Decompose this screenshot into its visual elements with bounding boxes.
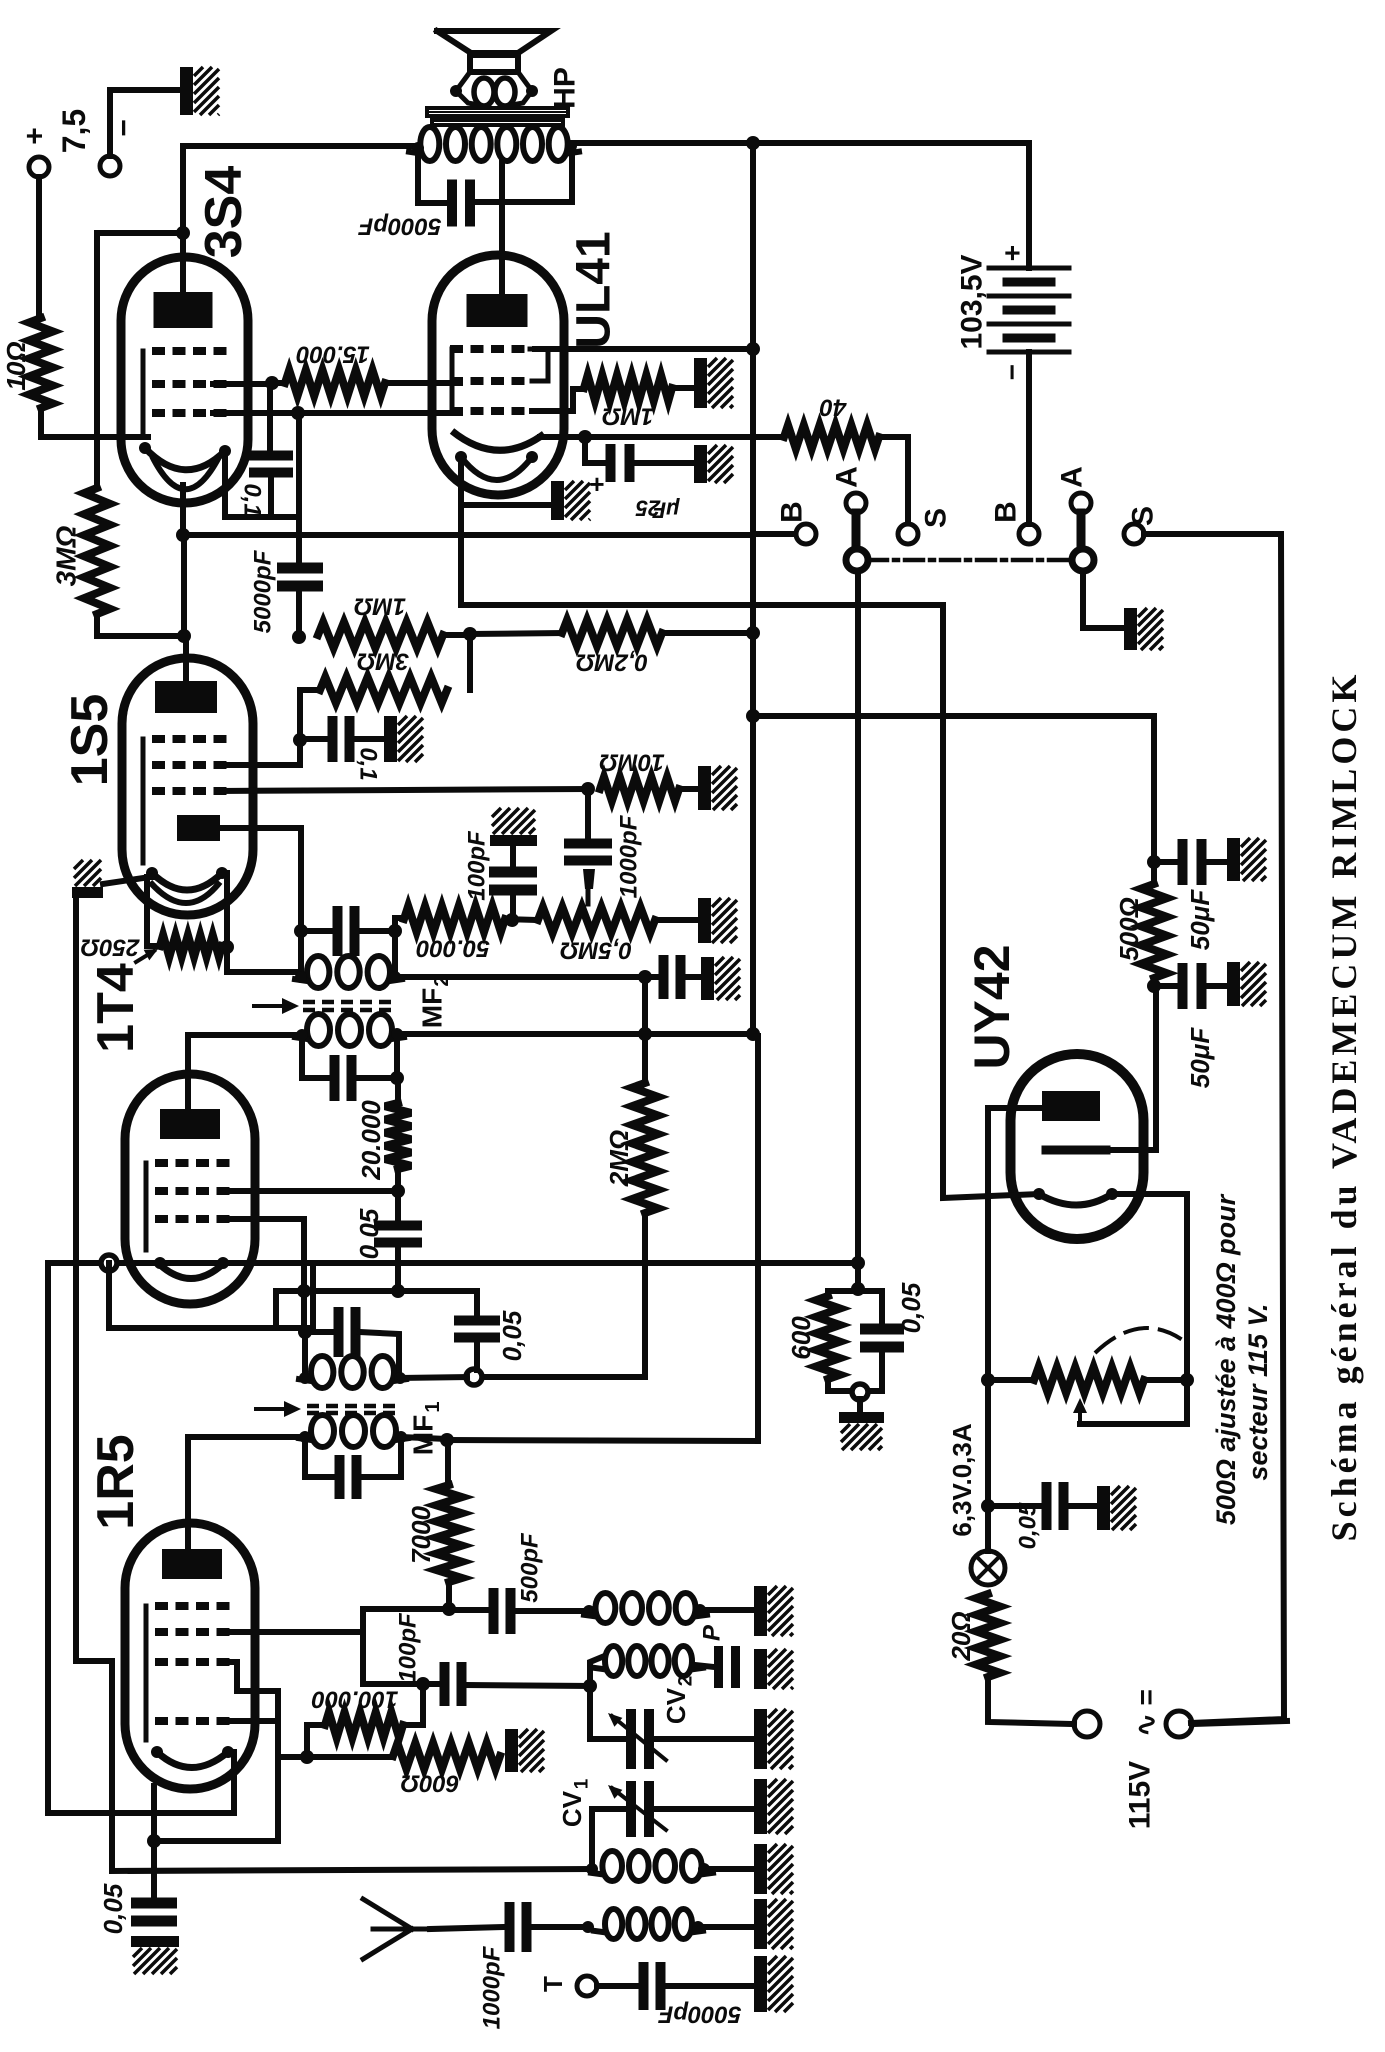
wire 3S4 g1 bus to UL41 grid	[213, 410, 460, 416]
wire switch pole 1 down (A- bus)	[855, 571, 861, 1289]
wire 2M bottom to 0,05/volume bus	[482, 1213, 645, 1377]
potentiometer arrow	[136, 951, 154, 962]
svg-text:6,3V.0,3A: 6,3V.0,3A	[947, 1423, 977, 1536]
wire decoupling top rail	[828, 1288, 882, 1294]
wire UY42 filament right to dropper	[1112, 1194, 1187, 1424]
transformer core laminations	[427, 108, 568, 116]
node MF1/7000 junction	[440, 1433, 454, 1447]
wire transformer tap to UL41 anode	[499, 160, 505, 294]
node MF2 primary right / 20.000	[394, 1034, 400, 1078]
node 250 ohm right	[220, 940, 234, 954]
tube UL41 screen bracket right	[530, 349, 548, 381]
capacitor MF2 top tank	[333, 906, 343, 956]
capacitor 500pF	[449, 1607, 489, 1613]
svg-text:10Ω: 10Ω	[1, 341, 31, 390]
wire down to 25uF	[585, 437, 605, 463]
wire 1M/0,2M node down to 3M	[467, 634, 473, 690]
svg-text:500Ω: 500Ω	[1114, 897, 1144, 961]
wire CV1 left to antenna tank	[592, 1809, 627, 1869]
node 6,3V lamp junction	[981, 1499, 995, 1513]
resistor 100.000 (osc grid leak)	[307, 1725, 325, 1757]
svg-text:40: 40	[819, 394, 847, 421]
node osc tank left	[583, 1679, 597, 1693]
wire 0,2M to B+ bus	[662, 630, 753, 636]
svg-text:0,1: 0,1	[239, 483, 266, 516]
svg-text:20Ω: 20Ω	[946, 1611, 976, 1661]
wire B+ return line (y=1440)	[447, 1036, 758, 1441]
node smoothing junction	[1147, 979, 1161, 993]
wire chassis bus to antenna coil bus	[76, 1661, 592, 1871]
switch pole 1	[852, 513, 861, 547]
wire 10 ohm to 3S4 filament	[41, 408, 148, 437]
wire 1S5 anode to AF node	[183, 636, 189, 681]
resistor 2 Mohm (detector load)	[632, 1083, 658, 1213]
wire S2 to mains bus	[1144, 534, 1284, 1723]
node 7000 bottom	[442, 1602, 456, 1616]
svg-text:HP: HP	[549, 67, 582, 109]
coil oscillator feedback winding	[596, 1593, 616, 1623]
node crossing circle	[101, 1255, 117, 1271]
svg-text:MF: MF	[417, 988, 448, 1028]
node anode/grid junction dot	[176, 226, 190, 240]
ground (1S5 filament left)	[72, 887, 103, 898]
svg-text:1MΩ: 1MΩ	[602, 403, 654, 430]
wire y=1841 to osc grid bus	[154, 1838, 278, 1844]
ground (switch pole 2)	[1124, 608, 1137, 650]
node screen junction	[265, 376, 279, 390]
dropper wiper arrow	[1078, 1410, 1082, 1424]
node 100pF/osc junction	[416, 1677, 430, 1691]
node antenna tank left	[586, 1863, 598, 1875]
wire pole 2 to ground	[1083, 571, 1122, 628]
node decoupling top	[851, 1282, 865, 1296]
wire 0,5M to ground	[655, 917, 700, 923]
svg-text:20.000: 20.000	[356, 1100, 386, 1181]
ground (earth 5000pF)	[754, 1956, 767, 2012]
wire 3S4 screen to 15.000 resistor	[213, 381, 272, 387]
svg-text:B: B	[990, 501, 1023, 523]
resistor 15.000 (screen feed)	[285, 370, 385, 396]
wire UL41 cathode right to 25uF and 40 ohm	[540, 434, 784, 440]
stub 1000pF lower electrode	[583, 869, 595, 889]
wire grid-cap bus to 3S4	[97, 230, 183, 236]
wire B terminal to B+ bus	[753, 531, 795, 537]
svg-text:100pF: 100pF	[395, 1612, 422, 1683]
MF1 core with tuning arrow	[307, 1406, 399, 1413]
svg-text:5000pF: 5000pF	[657, 2001, 741, 2028]
wire 1S5 g1/AVC bus	[218, 789, 588, 791]
ground (UL41 cathode)	[551, 481, 564, 520]
terminal B (switch 2)	[1019, 524, 1039, 544]
wire 20 ohm to mains terminal	[988, 1677, 1074, 1724]
wire UL41 g1 to 1M resistor	[532, 389, 584, 411]
capacitor padder P	[695, 1665, 714, 1667]
wire y=1757	[278, 1754, 393, 1760]
wire CV1 right to ground	[653, 1806, 754, 1812]
node B+ / MF2	[746, 1027, 760, 1041]
coil antenna primary	[605, 1909, 622, 1939]
svg-text:S: S	[1127, 506, 1160, 526]
svg-text:15.000: 15.000	[296, 341, 370, 368]
wire 3S4 filament to 0,1 cap	[225, 452, 271, 517]
svg-text:0,2MΩ: 0,2MΩ	[576, 649, 648, 676]
svg-text:UL41: UL41	[568, 231, 621, 348]
svg-text:5000pF: 5000pF	[357, 213, 441, 240]
svg-text:50.000: 50.000	[416, 935, 490, 962]
node screen/3M/0,1 junction	[293, 733, 307, 747]
capacitor 1000pF (antenna)	[505, 1902, 515, 1952]
tube 1R5 grid left bracket	[144, 1606, 149, 1740]
ground (bias network)	[839, 1412, 884, 1423]
svg-text:0,05: 0,05	[1015, 1502, 1042, 1549]
resistor 600 (bias)	[825, 1291, 831, 1296]
svg-text:A: A	[1056, 466, 1089, 488]
ground (padder)	[754, 1649, 767, 1689]
ground (0,5M)	[698, 898, 711, 943]
node open junction bottom	[852, 1384, 868, 1400]
node reservoir junction	[1147, 855, 1161, 869]
wire 1R5 filament right down	[228, 1752, 234, 1813]
wire MF1 primary right to B+ return	[401, 1437, 447, 1439]
terminal mains live	[1074, 1711, 1100, 1737]
capacitor 0,05 (screen bypass)	[395, 1191, 401, 1221]
svg-text:0,05: 0,05	[497, 1310, 527, 1361]
ground (100pF AVC, hatched above)	[490, 835, 537, 846]
wire 1M right to junction	[443, 632, 470, 638]
node g1/AVC bus	[297, 1284, 311, 1298]
wire 1S5 diode plate out	[220, 828, 301, 931]
svg-text:1000pF: 1000pF	[616, 814, 643, 898]
node AF junction	[177, 629, 191, 643]
wire 1T4 anode to MF2 primary	[185, 1035, 191, 1109]
variable capacitor CV2	[590, 1736, 627, 1742]
svg-text:600Ω: 600Ω	[400, 1770, 459, 1797]
node B+ detector junction	[746, 709, 760, 723]
ground (25uF)	[694, 445, 707, 483]
wire filament bottom bus (y=1813)	[48, 1810, 234, 1816]
node g1 bus / 5000pF tap	[291, 406, 305, 420]
wire filament bus to the right (y=535)	[183, 532, 753, 538]
wire 1T4 screen to 20.000	[221, 1188, 398, 1194]
resistor 20.000 (screen dropper)	[385, 1103, 411, 1169]
tube 3S4 grid g3 row	[152, 409, 227, 417]
resistor 500 ohm (smoothing)	[1141, 884, 1167, 978]
wire 3S4 anode lead to HT rail	[180, 146, 186, 292]
node MF1 top left	[298, 1325, 312, 1339]
svg-text:500pF: 500pF	[517, 1532, 544, 1603]
terminal A (switch 2)	[1071, 493, 1091, 513]
tube UL41 grid left bracket	[450, 349, 455, 411]
tube 1R5 envelope	[125, 1523, 255, 1789]
wire filament return loop	[109, 1263, 313, 1328]
capacitor 100pF (detector)	[659, 955, 669, 999]
wire 40 ohm to S contact	[879, 437, 908, 523]
capacitor 5000pF (earth)	[639, 1962, 649, 2010]
resistor 10 ohm	[29, 318, 53, 408]
tube 3S4 filament arcs	[145, 448, 225, 470]
svg-text:0,05: 0,05	[354, 1208, 384, 1259]
ground (antenna secondary)	[754, 1844, 767, 1894]
ground (osc feedback coil)	[754, 1586, 767, 1636]
tube 1S5 diode plate	[177, 815, 220, 841]
svg-text:100pF: 100pF	[464, 830, 491, 901]
tube 1S5 envelope	[122, 658, 253, 915]
capacitor 0,05 (AVC decoupling)	[474, 1291, 480, 1316]
node screen/B+ junction	[746, 342, 760, 356]
tube 1T4 anode plate	[160, 1109, 220, 1139]
ground (50uF smoothing)	[1227, 962, 1240, 1006]
svg-text:1R5: 1R5	[87, 1434, 145, 1529]
wire AVC bus (y=1291)	[276, 1288, 477, 1294]
wire 20.000 bottom to screen node	[395, 1169, 401, 1191]
wire to 7000 resistor	[363, 1606, 449, 1612]
wire 5000pF to AF bus	[296, 592, 302, 637]
loudspeaker HP cone	[437, 31, 551, 53]
capacitor 100pF (osc grid)	[440, 1662, 450, 1706]
tube 1R5 filament arcs	[157, 1752, 228, 1768]
ground (CV1)	[754, 1779, 767, 1834]
svg-text:CV: CV	[557, 1790, 587, 1827]
wire filament lead down to AF bus	[181, 535, 187, 636]
node screen bypass to AVC bus	[391, 1284, 405, 1298]
resistor 0,5 Mohm	[505, 919, 538, 920]
wire 100pF to osc tuned circuit	[466, 1685, 590, 1686]
node filament bus junction	[176, 528, 190, 542]
svg-text:CV: CV	[661, 1687, 691, 1724]
tube UY42 filament arc	[1039, 1194, 1112, 1205]
wire osc coil left to junction	[590, 1657, 602, 1739]
wire decoupling bottom rail	[828, 1379, 882, 1391]
svg-text:1T4: 1T4	[87, 963, 145, 1053]
MF2 core with tuning arrow	[303, 1002, 395, 1010]
node open junction (0,05)	[466, 1369, 482, 1385]
svg-text:10MΩ: 10MΩ	[599, 749, 665, 776]
tube 3S4 grid left bracket	[141, 351, 146, 433]
tube 3S4 grid g2 row	[152, 347, 227, 355]
svg-text:600: 600	[786, 1316, 816, 1360]
lamp 6,3V	[971, 1551, 1005, 1585]
wire 100.000 right up to 100pF node	[403, 1684, 423, 1725]
svg-text:0,05: 0,05	[896, 1282, 926, 1333]
svg-text:5000pF: 5000pF	[250, 549, 277, 633]
terminal − (filament supply)	[100, 156, 120, 176]
wire A- bus left down	[45, 1263, 51, 1813]
ground (0,05 filament)	[131, 1936, 179, 1947]
capacitor 0,1 (3S4 screen bypass)	[249, 451, 293, 461]
node transformer left terminal	[412, 142, 424, 154]
resistor 40 ohm (economy)	[784, 425, 879, 449]
wire MF2 primary right to B+ bus	[397, 1031, 753, 1037]
resistor 1 Mohm (UL41 grid leak)	[584, 375, 672, 401]
wire MF1 secondary right to 0,05 node	[400, 1377, 467, 1378]
ground (0,1 screen bypass)	[384, 716, 397, 762]
svg-text:P: P	[699, 1624, 726, 1641]
MF2 primary winding	[307, 1014, 330, 1046]
wire 3M ohm bottom to AF bus	[97, 614, 184, 636]
wire 10M to ground	[679, 786, 700, 792]
node HT bus / B+ vertical	[746, 136, 760, 150]
wire diode load bus (y=977)	[395, 974, 659, 980]
node cathode bias junction	[578, 430, 592, 444]
svg-text:7000: 7000	[406, 1506, 436, 1564]
tube 1R5 grid rows	[155, 1602, 230, 1610]
wire HT bus right (to battery +)	[572, 140, 1026, 146]
battery 103,5V	[1026, 143, 1032, 268]
wire UL41 cathode to chassis ground	[461, 502, 550, 508]
ground (mains filter)	[1097, 1486, 1110, 1530]
wire 1M to ground	[672, 385, 695, 391]
tube UL41 grid rows	[450, 345, 525, 353]
wire 25uF to ground	[634, 460, 695, 466]
wire wiper to filament line	[1080, 1421, 1187, 1427]
svg-text:S: S	[920, 508, 953, 528]
wire detector B+ to UY42 cathode branch	[753, 716, 1154, 862]
node 100.000/600 junction	[300, 1750, 314, 1764]
tube 3S4 envelope	[121, 257, 248, 503]
terminal mains neutral	[1166, 1711, 1192, 1737]
terminal B (switch 1)	[796, 524, 816, 544]
ground (1M grid leak)	[694, 358, 707, 408]
wire 1R5 osc anode grid out	[221, 1629, 363, 1635]
svg-text:Schéma général du VADEMECUM RI: Schéma général du VADEMECUM RIMLOCK	[1324, 671, 1364, 1542]
wire 1R5 filament left to 0,05	[151, 1786, 157, 1899]
wire mains line down to lamp	[985, 1380, 991, 1551]
node detector/2M junction	[638, 970, 652, 984]
capacitor 0,1 (1S5 screen bypass)	[300, 736, 328, 742]
ground (10M)	[698, 766, 711, 810]
svg-text:115V: 115V	[1124, 1761, 1157, 1829]
resistor 50.000	[404, 906, 505, 932]
ground (top left)	[180, 67, 193, 115]
wire 1R5 g1 (oscillator grid) out	[221, 1662, 278, 1691]
MF1 primary winding	[311, 1415, 334, 1447]
wire 100pF to ground	[686, 974, 702, 980]
svg-text:0,5MΩ: 0,5MΩ	[560, 937, 632, 964]
wire 15.000 right to UL41 screen	[385, 380, 460, 386]
svg-text:7,5: 7,5	[56, 109, 92, 153]
svg-text:250Ω: 250Ω	[80, 934, 140, 961]
wire 0,1 capacitor to filament line	[271, 477, 298, 517]
svg-text:UY42: UY42	[964, 944, 1020, 1069]
capacitor MF1 top tank	[334, 1307, 344, 1357]
svg-text:50μF: 50μF	[1185, 1027, 1215, 1089]
ground (antenna primary)	[754, 1899, 767, 1949]
wire 15.000 left	[272, 380, 285, 386]
wire 500pF to osc coil	[515, 1608, 589, 1614]
capacitor 0,05 (bias bypass)	[879, 1291, 885, 1323]
wire minus terminal to ground	[110, 90, 178, 156]
wire filament bus A- (y=1263)	[48, 1260, 313, 1266]
capacitor 0,05 (filament RF bypass)	[131, 1898, 177, 1909]
svg-text:−: −	[997, 364, 1028, 380]
loudspeaker frame arms	[456, 72, 470, 91]
ground (50uF reservoir)	[1227, 838, 1240, 881]
capacitor 25uF electrolytic	[606, 444, 616, 482]
wire ground bar down (chassis bus left)	[73, 898, 79, 1661]
svg-text:100.000: 100.000	[311, 1686, 398, 1713]
capacitor MF2 primary tank	[302, 1035, 330, 1078]
wire 2M top lead	[642, 977, 648, 1083]
tube UY42 cathode bar	[1046, 1146, 1106, 1155]
capacitor 5000pF (AF coupling)	[296, 413, 302, 563]
wire mains neutral to S2 bus	[1192, 1721, 1287, 1724]
node 50.000/0,5M/100pF junction	[505, 913, 519, 927]
wire 5000pF to ground	[665, 1983, 754, 1989]
wire UY42 anode to mains	[988, 1108, 1071, 1380]
heater bus wire (y=605)	[461, 602, 943, 608]
tube UY42 envelope	[1011, 1054, 1144, 1239]
antenna symbol	[363, 1899, 412, 1929]
wire + terminal to 10 ohm resistor	[36, 177, 42, 318]
node diode / MF2 top	[294, 924, 308, 938]
svg-text:103,5V: 103,5V	[956, 254, 989, 349]
loudspeaker voice coil	[474, 78, 494, 106]
node osc feedback coil left	[583, 1605, 595, 1617]
wire UY42 cathode out to reservoir	[1106, 986, 1156, 1150]
wire MF2 primary left to 1T4 anode	[188, 1032, 302, 1038]
potentiometer 500 ohm mains dropper	[981, 1373, 995, 1387]
output transformer primary winding	[420, 127, 439, 161]
svg-text:+: +	[19, 127, 52, 145]
wire antenna coil to ground	[704, 1866, 754, 1872]
node 1M/0,2M junction	[463, 627, 477, 641]
node AVC bus / 1000pF	[581, 782, 595, 796]
wire B+ bus vertical	[750, 143, 756, 1036]
tube UY42 anode plate	[1042, 1091, 1100, 1121]
resistor 20 ohm	[976, 1594, 1000, 1677]
svg-text:1S5: 1S5	[61, 694, 119, 787]
MF2 secondary winding	[298, 931, 304, 978]
wire antenna to 1000pF	[430, 1927, 505, 1929]
svg-text:2: 2	[676, 1676, 697, 1687]
svg-text:secteur 115 V.: secteur 115 V.	[1243, 1303, 1273, 1480]
wire 1R5 g1 second row	[221, 1718, 278, 1724]
resistor 600 ohm	[393, 1743, 500, 1769]
coil oscillator tuned winding	[605, 1646, 622, 1676]
tube 1S5 grid rows	[152, 735, 227, 743]
tube 1T4 filament arcs	[158, 1263, 224, 1279]
ground (600 ohm)	[505, 1729, 518, 1772]
capacitor 50uF (smoothing)	[1178, 963, 1188, 1009]
resistor 250 ohm potentiometer (volume)	[147, 877, 160, 946]
node MF2 top right	[388, 924, 402, 938]
tube UL41 cathode arcs	[452, 431, 544, 450]
tube 1S5 grid left bracket	[141, 739, 146, 863]
wire osc grid down bus	[275, 1691, 281, 1841]
tube 1T4 grid left bracket	[144, 1163, 149, 1250]
terminal + (7,5V filament supply)	[29, 157, 49, 177]
svg-text:T: T	[538, 1976, 568, 1992]
capacitor 1000pF (AVC filter)	[585, 789, 591, 839]
svg-text:+: +	[997, 245, 1028, 261]
resistor 3 Mohm (3S4 grid leak)	[84, 488, 110, 614]
tube 1T4 grid rows	[155, 1159, 230, 1167]
capacitor 100pF (AVC to chassis above)	[510, 895, 516, 920]
svg-text:3S4: 3S4	[195, 166, 253, 259]
wire A- long bus (y=1263) middle segment	[313, 1260, 858, 1266]
wire 1S5 filament right to 250 ohm	[222, 873, 227, 947]
wire osc coil to ground	[700, 1607, 754, 1613]
wire 0,1 to ground	[354, 736, 385, 742]
wire HT top bus to output transformer	[183, 143, 418, 149]
svg-text:1: 1	[572, 1778, 593, 1789]
node 5000pF/AF bus	[292, 630, 306, 644]
node transformer right terminal	[565, 140, 577, 152]
svg-text:1MΩ: 1MΩ	[354, 593, 406, 620]
resistor 3 Mohm (screen feed 1S5)	[300, 690, 320, 740]
MF1 secondary winding	[302, 1332, 308, 1378]
wire MF2 tank leads	[301, 928, 333, 934]
